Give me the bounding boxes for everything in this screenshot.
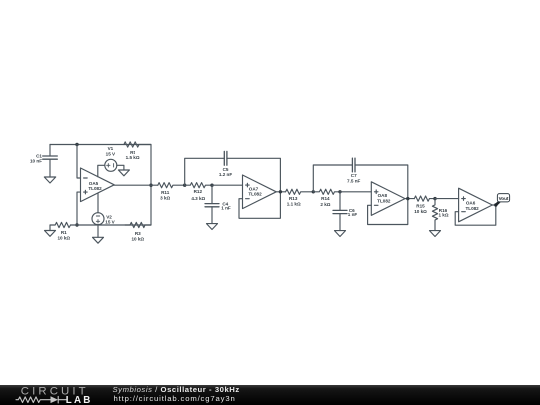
svg-text:C5: C5	[223, 167, 229, 172]
svg-text:10 nF: 10 nF	[30, 159, 42, 164]
svg-text:1 kΩ: 1 kΩ	[438, 213, 448, 218]
op-amp OA7	[243, 175, 277, 209]
resistor R16	[432, 199, 437, 231]
wire OA7 output	[276, 191, 285, 193]
svg-text:7.5 nF: 7.5 nF	[347, 179, 360, 184]
svg-text:3 kΩ: 3 kΩ	[160, 195, 170, 200]
svg-text:OA7: OA7	[249, 186, 259, 191]
svg-text:10 kΩ: 10 kΩ	[57, 235, 70, 240]
svg-text:10 kΩ: 10 kΩ	[414, 209, 427, 214]
capacitor C4	[205, 185, 219, 223]
svg-text:TL082: TL082	[465, 206, 479, 211]
svg-text:R11: R11	[161, 190, 170, 195]
resistor R13	[286, 189, 314, 194]
node A (top rail / inverting input)	[75, 143, 78, 146]
wire C5 loop	[185, 158, 281, 192]
svg-text:Vout: Vout	[499, 196, 509, 201]
svg-text:V1: V1	[108, 146, 114, 151]
resistor R1	[50, 222, 71, 230]
voltage source V2	[92, 193, 104, 237]
component labels	[30, 146, 479, 241]
node (R13/R14/C7)	[312, 190, 315, 193]
wire OA8 output	[405, 198, 414, 200]
svg-text:TL082: TL082	[377, 198, 391, 203]
wire to OA6 noninverting input	[435, 198, 459, 200]
wire OA7 feedback	[239, 192, 280, 218]
ground (R1)	[45, 231, 56, 237]
wire OA5 output	[114, 184, 158, 186]
wire to OA7 noninverting input	[212, 184, 243, 186]
wire to inverting input	[77, 145, 81, 179]
ground (C1)	[44, 177, 55, 183]
wire OA6 output	[492, 204, 496, 206]
node (bottom rail)	[75, 223, 78, 226]
svg-text:R15: R15	[416, 204, 425, 209]
resistor R14	[313, 189, 340, 194]
node (OA5 output / feedback)	[149, 184, 152, 187]
node Vout flag	[496, 194, 510, 205]
node (OA8 output)	[406, 197, 409, 200]
resistor R12	[185, 183, 212, 188]
svg-text:R14: R14	[321, 196, 330, 201]
resistor Rt	[124, 142, 139, 147]
svg-text:10 kΩ: 10 kΩ	[131, 236, 144, 241]
svg-text:1.2 nF: 1.2 nF	[219, 172, 232, 177]
svg-text:15 V: 15 V	[105, 220, 115, 225]
op-amp OA6	[459, 188, 493, 222]
capacitor C5	[224, 151, 227, 165]
node (R14/C6/OA8+)	[338, 190, 341, 193]
wire right rail stage1	[139, 145, 151, 226]
capacitor C1	[43, 145, 58, 178]
svg-text:LAB: LAB	[66, 395, 93, 405]
node (OA6 output)	[494, 203, 497, 206]
svg-text:1.1 kΩ: 1.1 kΩ	[287, 201, 301, 206]
wire top rail stage1	[50, 144, 151, 146]
wire OA8 feedback	[368, 199, 408, 225]
wire noninverting input drop	[77, 192, 81, 225]
node (OA7 output)	[279, 190, 282, 193]
ground (R16)	[430, 231, 441, 237]
svg-text:1 nF: 1 nF	[221, 205, 231, 210]
svg-text:1 nF: 1 nF	[348, 212, 358, 217]
op-amp OA5	[81, 168, 115, 202]
ground (V2)	[93, 237, 104, 243]
node (R12/C4/OA7+)	[210, 184, 213, 187]
svg-text:OA8: OA8	[378, 193, 388, 198]
ground (C6)	[335, 231, 346, 237]
svg-text:OA6: OA6	[466, 201, 476, 206]
wire to OA8 noninverting input	[340, 191, 371, 193]
svg-text:R12: R12	[194, 189, 203, 194]
ground (V1)	[118, 170, 129, 176]
svg-text:2 kΩ: 2 kΩ	[320, 202, 330, 207]
resistor R3	[125, 222, 151, 227]
svg-text:TL082: TL082	[88, 186, 102, 191]
svg-text:4.3 kΩ: 4.3 kΩ	[191, 196, 205, 201]
footer bar	[0, 385, 540, 405]
resistor R11	[158, 183, 185, 188]
svg-text:R1: R1	[61, 230, 67, 235]
resistor R15	[414, 196, 435, 201]
capacitor C6	[333, 192, 347, 231]
op-amp OA8	[371, 182, 405, 216]
svg-text:TL082: TL082	[248, 192, 262, 197]
svg-text:OA5: OA5	[89, 181, 99, 186]
wire bottom rail	[71, 224, 152, 226]
wire OA6 feedback	[455, 205, 496, 225]
svg-text:R13: R13	[289, 196, 298, 201]
svg-text:1.5 kΩ: 1.5 kΩ	[126, 155, 140, 160]
svg-text:15 V: 15 V	[106, 152, 116, 157]
node (R15/R16/OA6+)	[433, 197, 436, 200]
svg-text:C7: C7	[351, 173, 357, 178]
ground (C4)	[207, 224, 218, 230]
wire C7 loop	[313, 165, 408, 199]
CircuitLab footer logo	[16, 386, 93, 405]
capacitor C7	[352, 158, 355, 172]
node (R11/R12/C5)	[183, 184, 186, 187]
voltage source V1	[98, 159, 124, 177]
